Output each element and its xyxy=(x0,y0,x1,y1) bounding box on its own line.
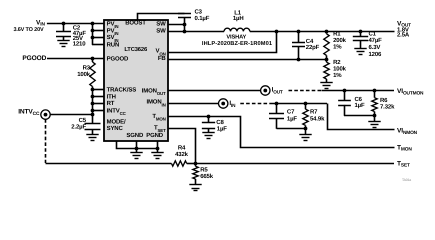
junction FB/R1/R2 xyxy=(325,58,329,62)
wire stub ITH xyxy=(92,96,104,98)
svg-text:47µF: 47µF xyxy=(369,37,383,44)
resistor R5 xyxy=(193,166,198,179)
wire SGND ground stub xyxy=(136,148,138,152)
ground C6 R6 xyxy=(368,122,380,128)
wire R6 bottom stub xyxy=(374,112,376,116)
junction VIN/C2 xyxy=(62,22,66,26)
resistor R3 xyxy=(90,62,95,87)
node VIOUTMON label xyxy=(397,88,424,96)
svg-text:R7: R7 xyxy=(310,108,318,115)
svg-text:1µF: 1µF xyxy=(287,115,297,122)
resistor R1 label xyxy=(333,30,341,37)
pin label PGND xyxy=(146,132,164,139)
svg-text:C7: C7 xyxy=(287,108,295,115)
pin label SVIN xyxy=(107,34,119,42)
capacitor C1 xyxy=(353,37,368,41)
resistor R4 label xyxy=(178,145,186,152)
wire C8 stub xyxy=(208,116,210,123)
wire IMONOUT to terminal xyxy=(168,90,261,92)
wire C5 to ground xyxy=(92,129,94,134)
svg-text:2.2µF: 2.2µF xyxy=(71,124,86,131)
wire IIN dashed xyxy=(240,103,272,105)
svg-text:ITH: ITH xyxy=(107,93,116,100)
wire R2 top stub xyxy=(326,60,328,62)
capacitor C1 value label xyxy=(369,37,383,44)
wire R2 to ground xyxy=(326,79,328,82)
ground PGND xyxy=(151,153,163,159)
svg-text:R4: R4 xyxy=(178,145,186,152)
ground C7 R7 xyxy=(299,135,311,141)
svg-text:FB: FB xyxy=(158,55,167,62)
svg-text:1µF: 1µF xyxy=(217,125,227,132)
junction C7 xyxy=(275,102,279,106)
wire SW to L1 xyxy=(168,31,224,33)
capacitor C2 xyxy=(56,32,71,37)
wire VIN to PVIN xyxy=(47,23,104,25)
wire R3 top stub xyxy=(92,58,94,62)
junction R7/ground xyxy=(304,127,308,131)
svg-text:R3: R3 xyxy=(83,64,91,71)
capacitor C7 xyxy=(269,114,284,119)
resistor R2 value label xyxy=(333,66,347,73)
pin label PVIN (pin 2) xyxy=(107,27,119,35)
svg-text:665k: 665k xyxy=(200,173,214,180)
junction R6 xyxy=(373,89,377,93)
capacitor C2 value label xyxy=(73,30,87,37)
wire VINMON corner xyxy=(328,104,395,130)
svg-text:1%: 1% xyxy=(333,44,342,51)
resistor R2 xyxy=(324,62,329,79)
node VIN label xyxy=(36,19,45,27)
pin label FB xyxy=(158,55,167,62)
capacitor C2 size label xyxy=(73,41,87,48)
junction C6 xyxy=(343,89,347,93)
wire MODE/SYNC to ground bus xyxy=(117,142,158,149)
wire C6 top stub xyxy=(344,91,346,100)
wire IIN to corner xyxy=(272,103,327,105)
svg-text:TRACK/SS: TRACK/SS xyxy=(107,86,137,93)
wire PGND ground stub xyxy=(157,148,159,152)
wire PGND stub xyxy=(157,141,159,148)
junction VOUT/C1 xyxy=(359,30,363,34)
resistor R4 value label xyxy=(175,151,189,158)
node VIN range label xyxy=(13,27,44,33)
wire R7 top stub xyxy=(305,104,307,110)
capacitor C6 label xyxy=(355,96,363,103)
wire INTVCC terminal to bus xyxy=(50,114,92,116)
wire C7 top stub xyxy=(276,104,278,114)
capacitor C2 voltage label xyxy=(73,35,83,42)
wire C1 top stub xyxy=(360,31,362,36)
pin label TRACK/SS xyxy=(107,86,137,93)
capacitor C8 label xyxy=(216,119,224,126)
node PGOOD label xyxy=(22,55,46,62)
ground C2 xyxy=(57,41,69,47)
wire stub TRACK/SS xyxy=(92,89,104,91)
wire C7 bottom stub xyxy=(276,118,278,129)
junction R4/R5/TSET xyxy=(194,162,198,166)
inductor L1 label xyxy=(234,10,242,17)
ground SGND xyxy=(130,153,142,159)
junction R7 xyxy=(304,102,308,106)
pin label RT xyxy=(107,100,115,107)
node TMON label xyxy=(397,145,412,153)
terminal INTVCC xyxy=(41,110,50,119)
junction VOUT/R1 xyxy=(325,30,329,34)
svg-text:0.1µF: 0.1µF xyxy=(195,15,210,22)
junction SW1 xyxy=(183,23,187,27)
wire R1 bottom stub xyxy=(326,55,328,59)
junction TRACK/SS xyxy=(91,88,95,92)
svg-text:1206: 1206 xyxy=(369,51,383,58)
pin label SW (pin 1) xyxy=(156,20,166,27)
capacitor C1 label xyxy=(369,30,377,37)
resistor R1 tolerance label xyxy=(333,44,342,51)
junction TMON/C8 xyxy=(207,115,211,119)
junction RT xyxy=(91,102,95,106)
wire R5 to ground xyxy=(195,179,197,185)
svg-text:SW: SW xyxy=(156,20,166,27)
svg-text:R1: R1 xyxy=(333,30,341,37)
resistor R5 value label xyxy=(200,173,214,180)
svg-text:PGOOD: PGOOD xyxy=(22,55,46,62)
junction PGND xyxy=(156,147,160,151)
capacitor C3 value label xyxy=(195,15,210,22)
svg-text:100k: 100k xyxy=(77,71,91,78)
IC U1 part number label xyxy=(124,46,148,53)
resistor R6 label xyxy=(380,97,388,104)
svg-text:TSET: TSET xyxy=(397,161,410,169)
capacitor C4 xyxy=(292,43,305,47)
wire INTVCC bus vertical xyxy=(92,87,94,124)
pin label SGND xyxy=(126,132,144,139)
svg-text:LTC3626: LTC3626 xyxy=(124,46,148,53)
svg-text:TA01a: TA01a xyxy=(402,178,411,182)
svg-text:VIOUTMON: VIOUTMON xyxy=(397,88,424,96)
junction SGND xyxy=(135,147,139,151)
svg-text:VINMON: VINMON xyxy=(397,128,418,136)
wire stub RT xyxy=(92,103,104,105)
capacitor C8 value label xyxy=(217,125,227,132)
pin label INTVCC (pin) xyxy=(107,107,127,115)
pin label PVIN (pin 1) xyxy=(107,20,119,28)
ground R5 xyxy=(189,185,201,191)
capacitor C6 xyxy=(338,101,351,106)
wire TSET output xyxy=(195,163,394,165)
node IIN label xyxy=(229,100,236,108)
junction ITH xyxy=(91,95,95,99)
svg-text:1µH: 1µH xyxy=(233,15,244,22)
resistor R5 label xyxy=(200,166,208,173)
pin label IMONIN xyxy=(146,99,165,107)
wire stub PVIN2 xyxy=(92,30,104,32)
svg-text:RUN: RUN xyxy=(107,41,120,48)
wire C4 top stub xyxy=(298,31,300,42)
wire input bus vertical xyxy=(92,24,94,45)
svg-text:IIN: IIN xyxy=(229,100,236,108)
svg-text:PGND: PGND xyxy=(146,132,164,139)
capacitor C5 value label xyxy=(71,124,86,131)
svg-text:R2: R2 xyxy=(333,59,341,66)
wire C2 stub xyxy=(63,24,65,31)
capacitor C6 value label xyxy=(355,102,365,109)
svg-text:100k: 100k xyxy=(333,66,347,73)
resistor R7 xyxy=(303,109,308,125)
junction SW2 xyxy=(183,30,187,34)
capacitor C7 value label xyxy=(287,115,297,122)
wire C7/R7 ground bus xyxy=(277,128,306,130)
junction VOUT/C4 xyxy=(297,30,301,34)
wire SGND stub xyxy=(136,141,138,148)
svg-text:1%: 1% xyxy=(333,72,342,79)
wire stub RUN xyxy=(92,44,104,46)
svg-text:1210: 1210 xyxy=(73,41,87,48)
capacitor C2 label xyxy=(73,24,81,31)
svg-text:R6: R6 xyxy=(380,97,388,104)
svg-text:1µF: 1µF xyxy=(355,102,365,109)
resistor R7 value label xyxy=(310,115,325,122)
inductor L1 part label xyxy=(202,41,272,47)
wire R7 bottom stub xyxy=(305,125,307,128)
resistor R3 label xyxy=(83,64,91,71)
wire C1 to ground xyxy=(360,40,362,49)
inductor L1 value label xyxy=(233,15,244,22)
svg-text:C8: C8 xyxy=(216,119,224,126)
capacitor C3 label xyxy=(195,9,203,16)
wire C2 to ground xyxy=(63,37,65,41)
wire stub INTVCC pin xyxy=(92,110,104,112)
pin label TMON (pin) xyxy=(152,113,165,121)
wire C6 bottom stub xyxy=(344,105,346,116)
resistor R3 value label xyxy=(77,71,91,78)
wire C6/R6 ground bus xyxy=(344,115,375,117)
junction L1/VON riser xyxy=(275,30,279,34)
pin label ITH xyxy=(107,93,116,100)
svg-text:6.3V: 6.3V xyxy=(369,44,381,51)
svg-text:INTVCC: INTVCC xyxy=(18,109,40,117)
pin label TSET (pin) xyxy=(154,124,166,132)
wire IOUT to VIOUTMON xyxy=(322,90,395,92)
svg-text:SW: SW xyxy=(156,27,166,34)
pin label VON xyxy=(155,48,165,56)
wire C4 bottom stub xyxy=(298,46,300,59)
svg-text:2.5A: 2.5A xyxy=(397,32,410,39)
junction VIN/input bus xyxy=(91,22,95,26)
wire R7 ground stub xyxy=(305,129,307,135)
capacitor C1 size label xyxy=(369,51,383,58)
inductor L1 xyxy=(224,28,250,31)
svg-text:TMON: TMON xyxy=(397,145,412,153)
wire PGOOD xyxy=(47,58,104,60)
node VINMON label xyxy=(397,128,418,136)
resistor R2 label xyxy=(333,59,341,66)
resistor R7 label xyxy=(310,108,318,115)
pin label RUN xyxy=(107,41,120,48)
svg-text:7.32k: 7.32k xyxy=(380,103,395,110)
wire R6 top stub xyxy=(374,91,376,98)
junction SVIN xyxy=(91,36,95,40)
node VOUT label xyxy=(397,20,411,28)
wire R6 ground stub xyxy=(374,116,376,122)
wire L1 to VOUT xyxy=(250,31,395,33)
pin label PGOOD xyxy=(107,55,129,62)
capacitor C4 value label xyxy=(306,44,320,51)
node VOUT current label xyxy=(397,32,410,39)
inductor L1 vendor label xyxy=(226,35,246,41)
terminal IIN xyxy=(219,99,228,108)
ground C5 xyxy=(86,135,98,141)
svg-text:C3: C3 xyxy=(195,9,203,16)
resistor R1 xyxy=(324,34,329,56)
resistor R6 value label xyxy=(380,103,395,110)
wire R4 to TSET junction xyxy=(187,163,196,165)
svg-text:MODE/: MODE/ xyxy=(107,119,126,126)
wire BOOST to C3 xyxy=(138,14,185,21)
svg-text:RT: RT xyxy=(107,100,115,107)
capacitor C8 xyxy=(202,123,215,129)
wire IOUT dashed xyxy=(289,90,322,92)
pin label MODE/ xyxy=(107,119,126,126)
wire R5 top stub xyxy=(195,163,197,166)
svg-text:54.9k: 54.9k xyxy=(310,115,325,122)
junction INTVCC line xyxy=(91,113,95,117)
ground C8 xyxy=(202,133,214,139)
wire R1 top stub xyxy=(326,31,328,33)
ground R2 xyxy=(320,83,332,89)
capacitor C4 label xyxy=(306,38,314,45)
svg-text:432k: 432k xyxy=(175,151,189,158)
node VOUT voltage label xyxy=(397,26,409,33)
junction PVIN2 xyxy=(91,29,95,33)
resistor R4 xyxy=(172,161,187,166)
figure code label xyxy=(402,178,411,182)
junction R6/ground xyxy=(373,114,377,118)
wire INTVCC dashed vertical xyxy=(45,119,47,163)
node TSET label xyxy=(397,161,410,169)
svg-text:VISHAY: VISHAY xyxy=(226,35,246,41)
capacitor C7 label xyxy=(287,108,295,115)
wire TMON pin xyxy=(169,117,395,148)
svg-text:C6: C6 xyxy=(355,96,363,103)
svg-text:3.6V TO 20V: 3.6V TO 20V xyxy=(13,27,44,33)
capacitor C5 xyxy=(85,124,101,130)
wire C3 to SW riser xyxy=(184,18,186,32)
junction FB/C4 xyxy=(297,58,301,62)
resistor R2 tolerance label xyxy=(333,72,342,79)
wire SW pin 1 xyxy=(168,24,184,26)
IC U1 LTC3626 xyxy=(104,20,168,141)
capacitor C5 label xyxy=(79,117,87,124)
resistor R6 xyxy=(372,98,377,112)
terminal IOUT xyxy=(261,86,270,95)
node IOUT label xyxy=(272,86,283,94)
junction PGOOD/R3 xyxy=(91,57,95,61)
svg-text:200k: 200k xyxy=(333,37,347,44)
wire TSET pin to junction xyxy=(169,129,196,164)
svg-text:22pF: 22pF xyxy=(306,44,320,51)
junction INTVCC pin xyxy=(91,109,95,113)
pin label SYNC xyxy=(107,125,124,132)
node INTVCC label xyxy=(18,109,40,117)
svg-text:IOUT: IOUT xyxy=(272,86,283,94)
svg-text:SGND: SGND xyxy=(126,132,144,139)
svg-text:C1: C1 xyxy=(369,30,377,37)
capacitor C3 xyxy=(178,14,191,18)
pin label SW (pin 2) xyxy=(156,27,166,34)
wire C8 to ground xyxy=(208,129,210,133)
wire stub SVIN xyxy=(92,37,104,39)
resistor R1 value label xyxy=(333,37,347,44)
svg-text:IHLP-2020BZ-ER-1R0M01: IHLP-2020BZ-ER-1R0M01 xyxy=(202,41,272,47)
svg-text:VIN: VIN xyxy=(36,19,45,27)
svg-text:R5: R5 xyxy=(200,166,208,173)
svg-text:PGOOD: PGOOD xyxy=(107,55,129,62)
capacitor C1 voltage label xyxy=(369,44,381,51)
wire FB xyxy=(168,59,327,61)
wire VON xyxy=(169,32,277,53)
svg-text:SYNC: SYNC xyxy=(107,125,124,132)
ground C1 xyxy=(354,49,366,55)
wire INTVCC to R4 xyxy=(46,163,172,165)
pin label IMONOUT xyxy=(142,87,166,95)
wire IMONIN to terminal xyxy=(168,103,219,105)
svg-text:C5: C5 xyxy=(79,117,87,124)
svg-text:BOOST: BOOST xyxy=(125,20,146,27)
pin label BOOST xyxy=(125,20,146,27)
